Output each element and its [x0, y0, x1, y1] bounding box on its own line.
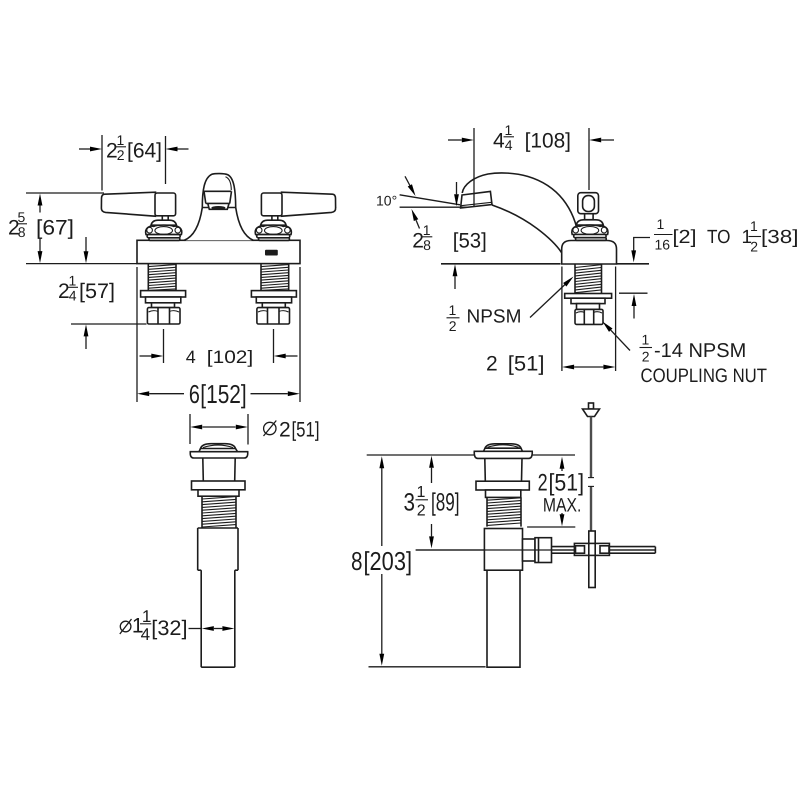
svg-text:MAX.: MAX. [543, 495, 582, 517]
svg-text:[51]: [51] [549, 470, 585, 497]
svg-text:16: 16 [655, 237, 671, 253]
svg-text:[67]: [67] [36, 217, 74, 240]
svg-text:5: 5 [18, 209, 26, 225]
svg-text:4: 4 [141, 625, 150, 644]
svg-text:[57]: [57] [79, 280, 115, 303]
svg-text:NPSM: NPSM [467, 307, 522, 328]
svg-text:1: 1 [69, 273, 77, 289]
svg-text:8: 8 [423, 237, 431, 253]
svg-text:1: 1 [505, 122, 513, 138]
svg-text:1: 1 [642, 332, 650, 348]
svg-text:[102]: [102] [207, 347, 253, 367]
svg-text:2: 2 [750, 239, 758, 255]
svg-text:2: 2 [486, 353, 498, 376]
svg-text:8: 8 [351, 546, 363, 576]
svg-text:1: 1 [657, 216, 665, 232]
svg-text:[53]: [53] [453, 230, 487, 253]
svg-text:10°: 10° [376, 193, 397, 209]
svg-text:[51]: [51] [508, 353, 545, 376]
svg-text:TO: TO [707, 227, 731, 248]
svg-text:1: 1 [449, 302, 457, 318]
svg-text:4: 4 [69, 288, 77, 304]
svg-text:2: 2 [538, 470, 548, 497]
svg-text:[38]: [38] [761, 227, 799, 248]
svg-text:1: 1 [142, 607, 151, 626]
svg-text:[64]: [64] [127, 140, 162, 163]
svg-text:4: 4 [493, 130, 505, 153]
svg-text:COUPLING NUT: COUPLING NUT [641, 365, 768, 387]
svg-text:4: 4 [505, 137, 513, 153]
svg-text:1: 1 [423, 222, 431, 238]
svg-text:[89]: [89] [431, 489, 460, 517]
svg-text:1: 1 [750, 218, 758, 234]
svg-text:[51]: [51] [292, 419, 320, 442]
svg-text:1: 1 [417, 484, 426, 501]
svg-text:2: 2 [279, 419, 291, 442]
svg-text:2: 2 [449, 318, 457, 334]
svg-text:8: 8 [18, 224, 26, 240]
svg-text:[108]: [108] [525, 130, 571, 153]
svg-text:[2]: [2] [673, 227, 697, 248]
svg-text:1: 1 [117, 132, 125, 148]
svg-text:6: 6 [189, 379, 200, 409]
svg-text:2: 2 [417, 503, 426, 520]
svg-text:[203]: [203] [364, 546, 413, 576]
svg-text:[152]: [152] [200, 379, 246, 409]
svg-text:-14 NPSM: -14 NPSM [654, 340, 746, 362]
svg-text:2: 2 [642, 349, 650, 365]
svg-text:2: 2 [117, 147, 125, 163]
svg-text:[32]: [32] [151, 617, 187, 640]
svg-text:4: 4 [186, 347, 196, 367]
svg-text:3: 3 [404, 489, 416, 517]
